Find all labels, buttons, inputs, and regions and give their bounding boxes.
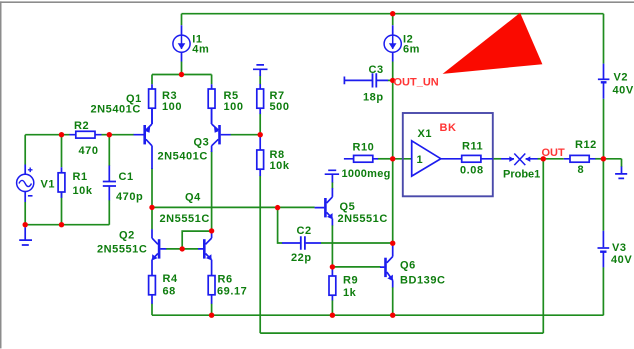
node dot Q1 collector drive xyxy=(149,205,154,210)
svg-text:2N5551C: 2N5551C xyxy=(160,213,210,225)
svg-text:OUT: OUT xyxy=(542,147,566,159)
label R6 xyxy=(217,274,247,298)
svg-text:2N5401C: 2N5401C xyxy=(158,151,208,163)
wire R12 to supply node xyxy=(595,158,603,160)
annotation red triangle xyxy=(443,13,543,74)
buffer triangle X1 xyxy=(412,141,441,176)
node dot ground rail R1 xyxy=(59,222,64,227)
wire R8 feedback column xyxy=(259,176,261,334)
wire R9 bottom xyxy=(331,300,333,315)
svg-text:Q5: Q5 xyxy=(340,201,356,213)
svg-text:R9: R9 xyxy=(343,275,358,287)
svg-text:500: 500 xyxy=(270,101,290,113)
label X1 xyxy=(418,128,433,140)
battery V3 xyxy=(598,231,610,268)
svg-text:OUT_UN: OUT_UN xyxy=(394,77,439,89)
capacitor C3 xyxy=(344,73,388,87)
label R3 xyxy=(162,90,182,113)
node dot R6 bottom rail xyxy=(209,313,214,318)
wire V1 column xyxy=(24,135,26,225)
wire C2 left branch xyxy=(278,208,283,243)
resistor R12 xyxy=(564,155,596,162)
wire OUT to R12 xyxy=(543,158,564,160)
svg-text:R12: R12 xyxy=(575,139,597,151)
label C3 xyxy=(363,64,384,104)
resistor R5 xyxy=(208,84,215,124)
transistor Q3 xyxy=(212,108,231,152)
wire R7 bottom xyxy=(259,114,261,135)
svg-text:68: 68 xyxy=(163,286,176,298)
svg-text:R3: R3 xyxy=(162,90,177,102)
resistor R4 xyxy=(149,260,156,304)
svg-text:40V: 40V xyxy=(613,85,634,97)
wire diff pair rail xyxy=(152,75,212,85)
wire feedback right column xyxy=(542,159,544,333)
svg-text:40V: 40V xyxy=(611,254,632,266)
node dot I1 tail xyxy=(179,72,184,77)
wire R6 bottom xyxy=(211,304,213,316)
svg-text:1000meg: 1000meg xyxy=(342,168,391,180)
label Q3 xyxy=(158,137,210,163)
label C2 xyxy=(291,225,312,264)
label I1 xyxy=(192,34,209,56)
svg-text:100: 100 xyxy=(162,101,182,113)
resistor R1 xyxy=(58,167,65,198)
wire probe to OUT xyxy=(537,158,543,160)
wire Q5 emitter column xyxy=(331,225,333,267)
wire I1 top column xyxy=(181,14,183,26)
svg-text:R7: R7 xyxy=(270,90,285,102)
node dot Q4 collector xyxy=(209,228,214,233)
wire VAS drive node A xyxy=(152,206,315,208)
wire input net right to Q1 base xyxy=(101,134,134,136)
label OUT_UN xyxy=(394,77,439,89)
svg-text:Q3: Q3 xyxy=(194,137,210,149)
wire Q1 collector to Q2 xyxy=(151,168,153,229)
source V1 xyxy=(17,165,34,203)
ground right of R12 xyxy=(615,167,627,179)
node dot ground rail V1 xyxy=(23,222,28,227)
svg-text:Q6: Q6 xyxy=(400,260,416,272)
label R9 xyxy=(343,275,358,299)
label V2 xyxy=(613,72,634,97)
label OUT xyxy=(542,147,566,159)
wire R7 ground stub xyxy=(259,76,261,85)
wire X1 input xyxy=(393,158,412,160)
label R4 xyxy=(163,273,178,298)
wire R4 bottom xyxy=(151,304,153,316)
svg-text:C2: C2 xyxy=(297,225,312,237)
wire Q3 collector column xyxy=(211,151,213,231)
node dot R9 bottom rail xyxy=(330,313,335,318)
svg-text:2N5401C: 2N5401C xyxy=(91,104,141,116)
resistor R8 xyxy=(257,137,264,177)
current source I1 xyxy=(173,25,190,61)
svg-text:1k: 1k xyxy=(343,287,357,299)
resistor R6 xyxy=(208,260,215,304)
node dot C2 tap xyxy=(275,205,280,210)
wire R10 node down to Q6 collector xyxy=(392,159,394,243)
node dot OUT junction xyxy=(541,156,546,161)
wire right ground stub xyxy=(603,159,621,167)
label R11 xyxy=(460,141,484,177)
transistor Q2 xyxy=(152,229,166,260)
svg-text:2N5551C: 2N5551C xyxy=(97,244,147,256)
label Probe1 xyxy=(503,169,540,181)
current source I2 xyxy=(384,25,401,61)
ground above R7 xyxy=(253,65,268,69)
resistor R2 xyxy=(70,131,102,138)
capacitor C2 xyxy=(282,236,321,250)
node dot top rail I2 xyxy=(390,11,395,16)
svg-text:C3: C3 xyxy=(369,64,384,76)
svg-text:6m: 6m xyxy=(403,44,420,56)
wire R1 column xyxy=(61,135,63,225)
svg-text:10k: 10k xyxy=(73,185,93,197)
resistor R11 xyxy=(441,155,493,162)
svg-text:V3: V3 xyxy=(612,242,627,254)
svg-text:V2: V2 xyxy=(614,72,629,84)
label Q5 xyxy=(338,201,388,225)
wire I1 bottom to diff rail xyxy=(181,62,183,75)
wire Q6 emitter bottom xyxy=(392,287,394,315)
probe Probe1 xyxy=(501,154,538,166)
svg-text:BK: BK xyxy=(440,122,457,134)
label Q6 xyxy=(400,260,446,287)
svg-text:22p: 22p xyxy=(291,252,312,264)
resistor R10 xyxy=(344,155,378,162)
svg-text:R5: R5 xyxy=(224,90,239,102)
label R5 xyxy=(224,90,244,113)
svg-text:R10: R10 xyxy=(353,142,375,154)
label Q1 xyxy=(91,93,142,116)
wire Q5 collector ground segment xyxy=(331,182,333,189)
svg-text:470p: 470p xyxy=(116,191,143,203)
ground under V1 xyxy=(19,227,32,245)
svg-text:Q4: Q4 xyxy=(185,192,201,204)
svg-text:69.17: 69.17 xyxy=(217,286,247,298)
ground above Q5 xyxy=(325,170,339,182)
label R7 xyxy=(270,90,290,113)
svg-text:R6: R6 xyxy=(218,274,233,286)
label R1 xyxy=(73,171,93,197)
wire OUT_UN down to R10 node xyxy=(392,80,394,158)
svg-text:2N5551C: 2N5551C xyxy=(338,213,388,225)
label Q2 xyxy=(97,230,147,256)
svg-text:0.08: 0.08 xyxy=(460,165,484,177)
svg-text:100: 100 xyxy=(224,101,244,113)
label R12 xyxy=(575,139,597,176)
wire top rail xyxy=(182,13,604,15)
macro box X1 xyxy=(403,113,493,196)
node dot input R1 top xyxy=(59,132,64,137)
svg-text:8: 8 xyxy=(578,164,585,176)
svg-text:R11: R11 xyxy=(462,141,483,153)
node dot Q3 base R7 R8 xyxy=(258,132,263,137)
svg-text:V1: V1 xyxy=(41,179,56,191)
node dot OUT_UN C3 xyxy=(390,78,395,83)
label V1 xyxy=(41,179,56,191)
wire input net left xyxy=(25,134,70,136)
battery V2 xyxy=(598,64,610,99)
node dot input C1 top xyxy=(107,132,112,137)
resistor R7 xyxy=(257,69,264,114)
svg-text:10k: 10k xyxy=(270,160,290,172)
svg-text:Probe1: Probe1 xyxy=(503,169,540,181)
svg-text:470: 470 xyxy=(79,145,99,157)
node dot Q5 emitter Q6 base R9 xyxy=(330,264,335,269)
wire Q6 base xyxy=(332,266,380,268)
svg-text:BD139C: BD139C xyxy=(400,274,446,286)
label C1 xyxy=(116,171,143,203)
wire X1 output to probe xyxy=(493,158,501,160)
svg-text:R4: R4 xyxy=(163,273,178,285)
wire C3 right to node xyxy=(388,79,393,81)
label R8 xyxy=(270,149,290,172)
label R2 xyxy=(74,120,99,157)
node dot Q6 emitter rail xyxy=(390,313,395,318)
wire bottom rail xyxy=(152,314,604,316)
svg-text:C1: C1 xyxy=(119,171,134,183)
wire ground rail left xyxy=(25,224,109,226)
node dot R10 X1 input xyxy=(390,156,395,161)
node dot R12 supply junction xyxy=(601,156,606,161)
wire V2 column xyxy=(603,14,605,159)
resistor R3 xyxy=(149,84,156,124)
transistor Q4 xyxy=(198,231,212,261)
label R10 xyxy=(342,142,391,181)
wire V3 column xyxy=(602,159,604,315)
wire I2 top column xyxy=(392,14,394,26)
wire mirror base net xyxy=(166,248,198,250)
label I2 xyxy=(403,34,420,56)
svg-text:R1: R1 xyxy=(73,171,88,183)
node dot Q6 collector C2 xyxy=(390,241,395,246)
transistor Q5 xyxy=(315,188,333,225)
svg-text:R2: R2 xyxy=(74,120,89,132)
wire Q3 base to R7 node xyxy=(230,134,260,136)
transistor Q1 xyxy=(134,108,153,169)
label Q4 xyxy=(160,192,210,226)
transistor Q6 xyxy=(380,245,393,287)
wire I2 to OUT_UN node xyxy=(392,62,394,81)
label V3 xyxy=(611,242,632,266)
svg-text:18p: 18p xyxy=(363,92,384,104)
label BK xyxy=(440,122,457,134)
wire C2 right to Q6 collector node xyxy=(321,242,393,244)
svg-text:4m: 4m xyxy=(192,44,209,56)
node dot mirror bases xyxy=(180,246,185,251)
svg-text:Q2: Q2 xyxy=(119,230,135,242)
capacitor C1 xyxy=(103,166,116,201)
svg-text:1: 1 xyxy=(417,154,424,166)
resistor R9 xyxy=(329,267,336,301)
wire R10 right to node xyxy=(378,158,393,160)
svg-text:X1: X1 xyxy=(418,128,433,140)
wire mirror diode connect xyxy=(182,231,211,249)
wire feedback bottom rail xyxy=(260,332,543,334)
label pin 1 xyxy=(417,154,424,166)
wire C1 column xyxy=(108,135,110,225)
